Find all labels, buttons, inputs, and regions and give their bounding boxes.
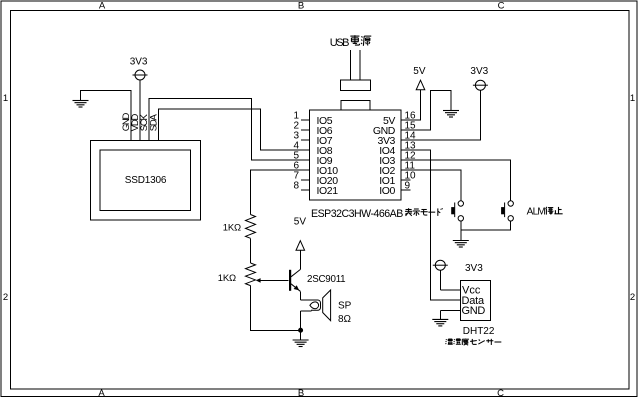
svg-text:B: B bbox=[298, 1, 304, 12]
svg-text:2: 2 bbox=[630, 292, 635, 303]
svg-text:ALM: ALM bbox=[527, 207, 546, 218]
svg-text:ESP32C3HW-466AB: ESP32C3HW-466AB bbox=[311, 208, 403, 220]
svg-text:GND: GND bbox=[462, 305, 486, 317]
svg-text:5V: 5V bbox=[294, 217, 307, 228]
svg-text:1: 1 bbox=[630, 93, 635, 104]
svg-text:A: A bbox=[98, 388, 105, 399]
svg-text:9: 9 bbox=[405, 181, 411, 192]
svg-text:1KΩ: 1KΩ bbox=[218, 273, 236, 284]
svg-text:A: A bbox=[99, 1, 106, 12]
svg-text:USB: USB bbox=[330, 37, 349, 49]
svg-text:SP: SP bbox=[338, 301, 352, 312]
svg-text:5V: 5V bbox=[413, 66, 426, 77]
svg-text:IO0: IO0 bbox=[379, 185, 395, 197]
svg-text:1: 1 bbox=[3, 93, 8, 104]
svg-text:DHT22: DHT22 bbox=[463, 326, 495, 337]
svg-text:C: C bbox=[497, 388, 504, 399]
svg-text:IO21: IO21 bbox=[317, 185, 339, 197]
svg-text:B: B bbox=[298, 388, 304, 399]
svg-text:SSD1306: SSD1306 bbox=[125, 175, 167, 186]
svg-text:1KΩ: 1KΩ bbox=[223, 222, 241, 233]
svg-text:3V3: 3V3 bbox=[465, 263, 483, 274]
svg-text:3V3: 3V3 bbox=[470, 66, 488, 77]
svg-text:C: C bbox=[498, 1, 505, 12]
svg-text:SDA: SDA bbox=[148, 114, 159, 132]
svg-text:8: 8 bbox=[293, 181, 299, 192]
svg-text:2SC9011: 2SC9011 bbox=[307, 274, 345, 285]
svg-text:8Ω: 8Ω bbox=[338, 314, 352, 325]
svg-text:2: 2 bbox=[3, 292, 8, 303]
svg-text:3V3: 3V3 bbox=[130, 56, 148, 67]
